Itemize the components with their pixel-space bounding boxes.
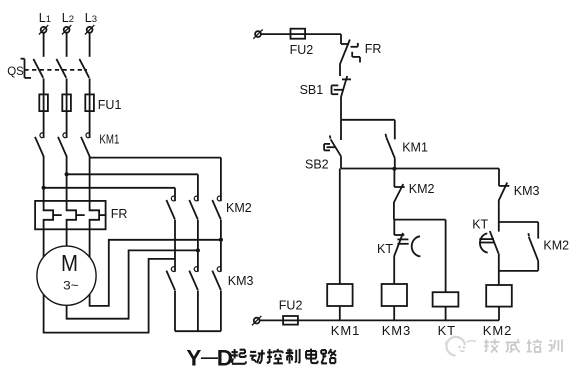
wire KM1 pole1 down to FR (43, 156, 45, 201)
wire KM2 pole3 down (220, 220, 222, 272)
wire KM3 pole3 to star bus (220, 291, 222, 332)
label FU2 (top) (290, 43, 314, 57)
wire FU2 to FR contact (305, 34, 341, 44)
label KM3 (coil) (382, 323, 411, 338)
timer KT delayed contact (star branch) (394, 220, 420, 257)
contactor KM2 main contact pole 3 (212, 196, 221, 220)
label KM1 (main contacts) (99, 132, 119, 146)
switch QS bracket (21, 59, 31, 78)
title char 制 (286, 349, 300, 364)
wire FR to motor phase 2 (66, 229, 68, 246)
wire branch L2 to KM2 delta column 2 (67, 174, 198, 201)
terminal control top (253, 29, 262, 38)
svg-text:QS: QS (7, 66, 24, 78)
label FR (control contact) (365, 42, 382, 56)
watermark char 培 (527, 339, 542, 352)
fuse FU2 (top) (291, 29, 306, 39)
contactor KM3 interlock NC contact (499, 183, 510, 201)
fuse FU1 element 2 (62, 94, 71, 111)
svg-text:KT: KT (377, 242, 393, 256)
wire L1 to QS (43, 33, 45, 57)
label SB2 (305, 158, 329, 172)
terminal L2 (62, 11, 74, 35)
coil KM2 (486, 285, 512, 320)
wire L2 to QS (66, 33, 68, 57)
wire QS to FU1 pole 2 (66, 78, 68, 94)
terminal L3 (85, 11, 97, 35)
svg-text:FU2: FU2 (279, 299, 303, 313)
coil KM1 (327, 284, 352, 320)
label FR (heaters) (111, 207, 128, 221)
svg-text:D: D (217, 346, 233, 371)
wire SB2 to rail (340, 156, 342, 168)
contactor KM2 main contact pole 2 (189, 196, 198, 220)
wire KT contact to KM3 coil (393, 256, 395, 284)
wire KM3 interlock down (498, 201, 500, 223)
wire QS to FU1 pole 1 (43, 78, 45, 94)
label KT (delta branch contact) (472, 218, 488, 232)
svg-text:FR: FR (111, 207, 128, 221)
wire KM3 pole1 to star bus (174, 291, 176, 332)
label KM3 (main contacts) (228, 274, 254, 288)
svg-text:KM2: KM2 (483, 323, 512, 338)
terminal L1 (39, 11, 51, 35)
wire KM1 aux to rail (394, 158, 396, 169)
terminal control bottom (252, 316, 261, 325)
wire KM2 pole2 down (197, 220, 199, 272)
wire branch to KM2 aux (499, 222, 538, 239)
wire FU1 to KM1 pole 2 (66, 111, 68, 138)
thermal relay FR break contact (340, 40, 360, 65)
node junction on phase 2 (65, 172, 69, 176)
title char 路 (321, 349, 336, 363)
title char 动 (250, 350, 265, 364)
wire SB1 to branch (340, 97, 342, 120)
contactor KM1 main contact pole 3 (81, 133, 90, 156)
label KM2 (coil) (483, 323, 512, 338)
contactor KM2 main contact pole 1 (166, 196, 175, 220)
wire FU1 to KM1 pole 1 (43, 111, 45, 138)
svg-text:FU2: FU2 (290, 43, 314, 57)
wire KM2 interlock to KT (393, 202, 395, 219)
svg-text:KM3: KM3 (228, 274, 254, 288)
wire KM1 pole3 down to FR (89, 156, 91, 201)
wire QS to FU1 pole 3 (89, 78, 91, 94)
timer KT delayed contact (delta branch) (479, 222, 499, 254)
label KM1 (coil) (331, 323, 360, 338)
wire branch to SB2 (340, 120, 342, 140)
contactor KM3 main contact pole 3 (212, 267, 221, 291)
switch QS pole 1 blade (33, 59, 43, 78)
wire FR to motor phase 3 (89, 229, 91, 257)
svg-text:FU1: FU1 (98, 98, 122, 112)
contactor KM1 main contact pole 1 (35, 133, 44, 156)
watermark char 技 (484, 339, 499, 352)
wire KM3 pole2 to star bus (197, 291, 199, 332)
svg-text:KM1: KM1 (402, 141, 428, 155)
label KT (delayed contact) (377, 242, 393, 256)
wire bottom rail (298, 319, 499, 321)
watermark logo (446, 337, 476, 356)
wire rail to KM2 interlock (393, 169, 395, 187)
switch QS pole 2 blade (56, 59, 66, 78)
switch QS linkage dashed bar (25, 69, 88, 71)
wire KM2 aux rejoin (499, 261, 538, 271)
svg-text:KT: KT (472, 218, 488, 232)
svg-text:L1: L1 (39, 11, 51, 25)
svg-text:KM2: KM2 (543, 239, 569, 253)
svg-text:Y: Y (186, 346, 201, 371)
watermark char 训 (548, 339, 562, 352)
contactor KM1 auxiliary NO contact (386, 134, 395, 158)
node delta junction column 2 (196, 248, 200, 252)
wire branch L1 to KM2 delta column 1 (44, 188, 175, 201)
svg-text:L2: L2 (62, 11, 74, 25)
label KM1 (aux contact) (402, 141, 428, 155)
wire KM2 pole1 down (174, 220, 176, 272)
contactor KM1 main contact pole 2 (58, 133, 67, 156)
label QS (7, 66, 24, 78)
title char 起 (232, 349, 247, 364)
wire branch to KT coil (394, 220, 446, 293)
svg-text:M: M (61, 250, 78, 276)
wire KT to KM2 coil (498, 254, 500, 285)
label FU2 (bottom) (279, 299, 303, 313)
timer KT coil (433, 292, 459, 320)
svg-text:FR: FR (365, 42, 382, 56)
label KM2 (aux contact) (543, 239, 569, 253)
svg-text:KM3: KM3 (514, 184, 540, 198)
wire KM1 pole2 down to FR (66, 156, 68, 201)
node rail junction (392, 167, 396, 171)
svg-text:KM2: KM2 (226, 201, 252, 215)
title char 电 (306, 349, 318, 364)
wire L3 to QS (89, 33, 91, 57)
node junction on phase 1 (42, 186, 46, 190)
wire branch L3 to KM2 delta column 3 (90, 158, 221, 202)
wire branch to KM1 aux (341, 120, 395, 140)
contactor KM3 main contact pole 1 (166, 267, 175, 291)
fuse FU2 (bottom) (283, 316, 298, 325)
fuse FU1 element 1 (39, 94, 48, 111)
svg-text:KT: KT (438, 323, 456, 338)
svg-text:L3: L3 (85, 11, 97, 25)
switch QS pole 3 blade (79, 59, 89, 78)
wire motor terminal 3 to star-delta node 3 (90, 240, 220, 306)
contactor KM2 auxiliary NO contact (528, 233, 538, 261)
button SB2 (start, NO) (324, 135, 341, 156)
title char 控 (267, 349, 283, 364)
watermark char 成 (506, 339, 520, 352)
wire terminal to FU2 (262, 33, 291, 35)
label KT (coil) (438, 323, 456, 338)
wire FU1 to KM1 pole 3 (89, 111, 91, 138)
title Y-D (latin part) (186, 346, 233, 371)
wire motor terminal 1 to star-delta node 1 (44, 259, 175, 333)
fuse FU1 element 3 (85, 94, 94, 111)
wire FR to motor phase 1 (43, 229, 45, 257)
wire rail to KM1 coil (339, 169, 341, 285)
svg-text:KM1: KM1 (99, 132, 119, 146)
svg-text:KM3: KM3 (382, 323, 411, 338)
label KM2 (main contacts) (226, 201, 252, 215)
motor M 3~ (37, 246, 96, 305)
wire star point bus (175, 330, 221, 332)
label FU1 (98, 98, 122, 112)
svg-text:KM2: KM2 (409, 182, 435, 196)
wire control rail (341, 168, 499, 170)
label KM2 (interlock) (409, 182, 435, 196)
label SB1 (300, 83, 324, 97)
svg-text:KM1: KM1 (331, 323, 360, 338)
thermal relay FR heater elements (35, 201, 106, 229)
svg-text:SB2: SB2 (305, 158, 329, 172)
contactor KM2 interlock NC contact (394, 184, 405, 203)
button SB1 (stop, NC) (332, 76, 352, 97)
wire motor terminal 2 to star-delta node 2 (67, 250, 197, 318)
node delta junction column 3 (219, 238, 223, 242)
wire terminal to FU2 bottom (260, 319, 283, 321)
label KM3 (interlock) (514, 184, 540, 198)
svg-text:3~: 3~ (63, 281, 79, 293)
wire rail to KM3 interlock (498, 169, 500, 186)
wire FR to SB1 (339, 65, 341, 77)
svg-text:SB1: SB1 (300, 83, 324, 97)
svg-text:—: — (201, 348, 218, 367)
coil KM3 (382, 284, 407, 320)
contactor KM3 main contact pole 2 (189, 267, 198, 291)
